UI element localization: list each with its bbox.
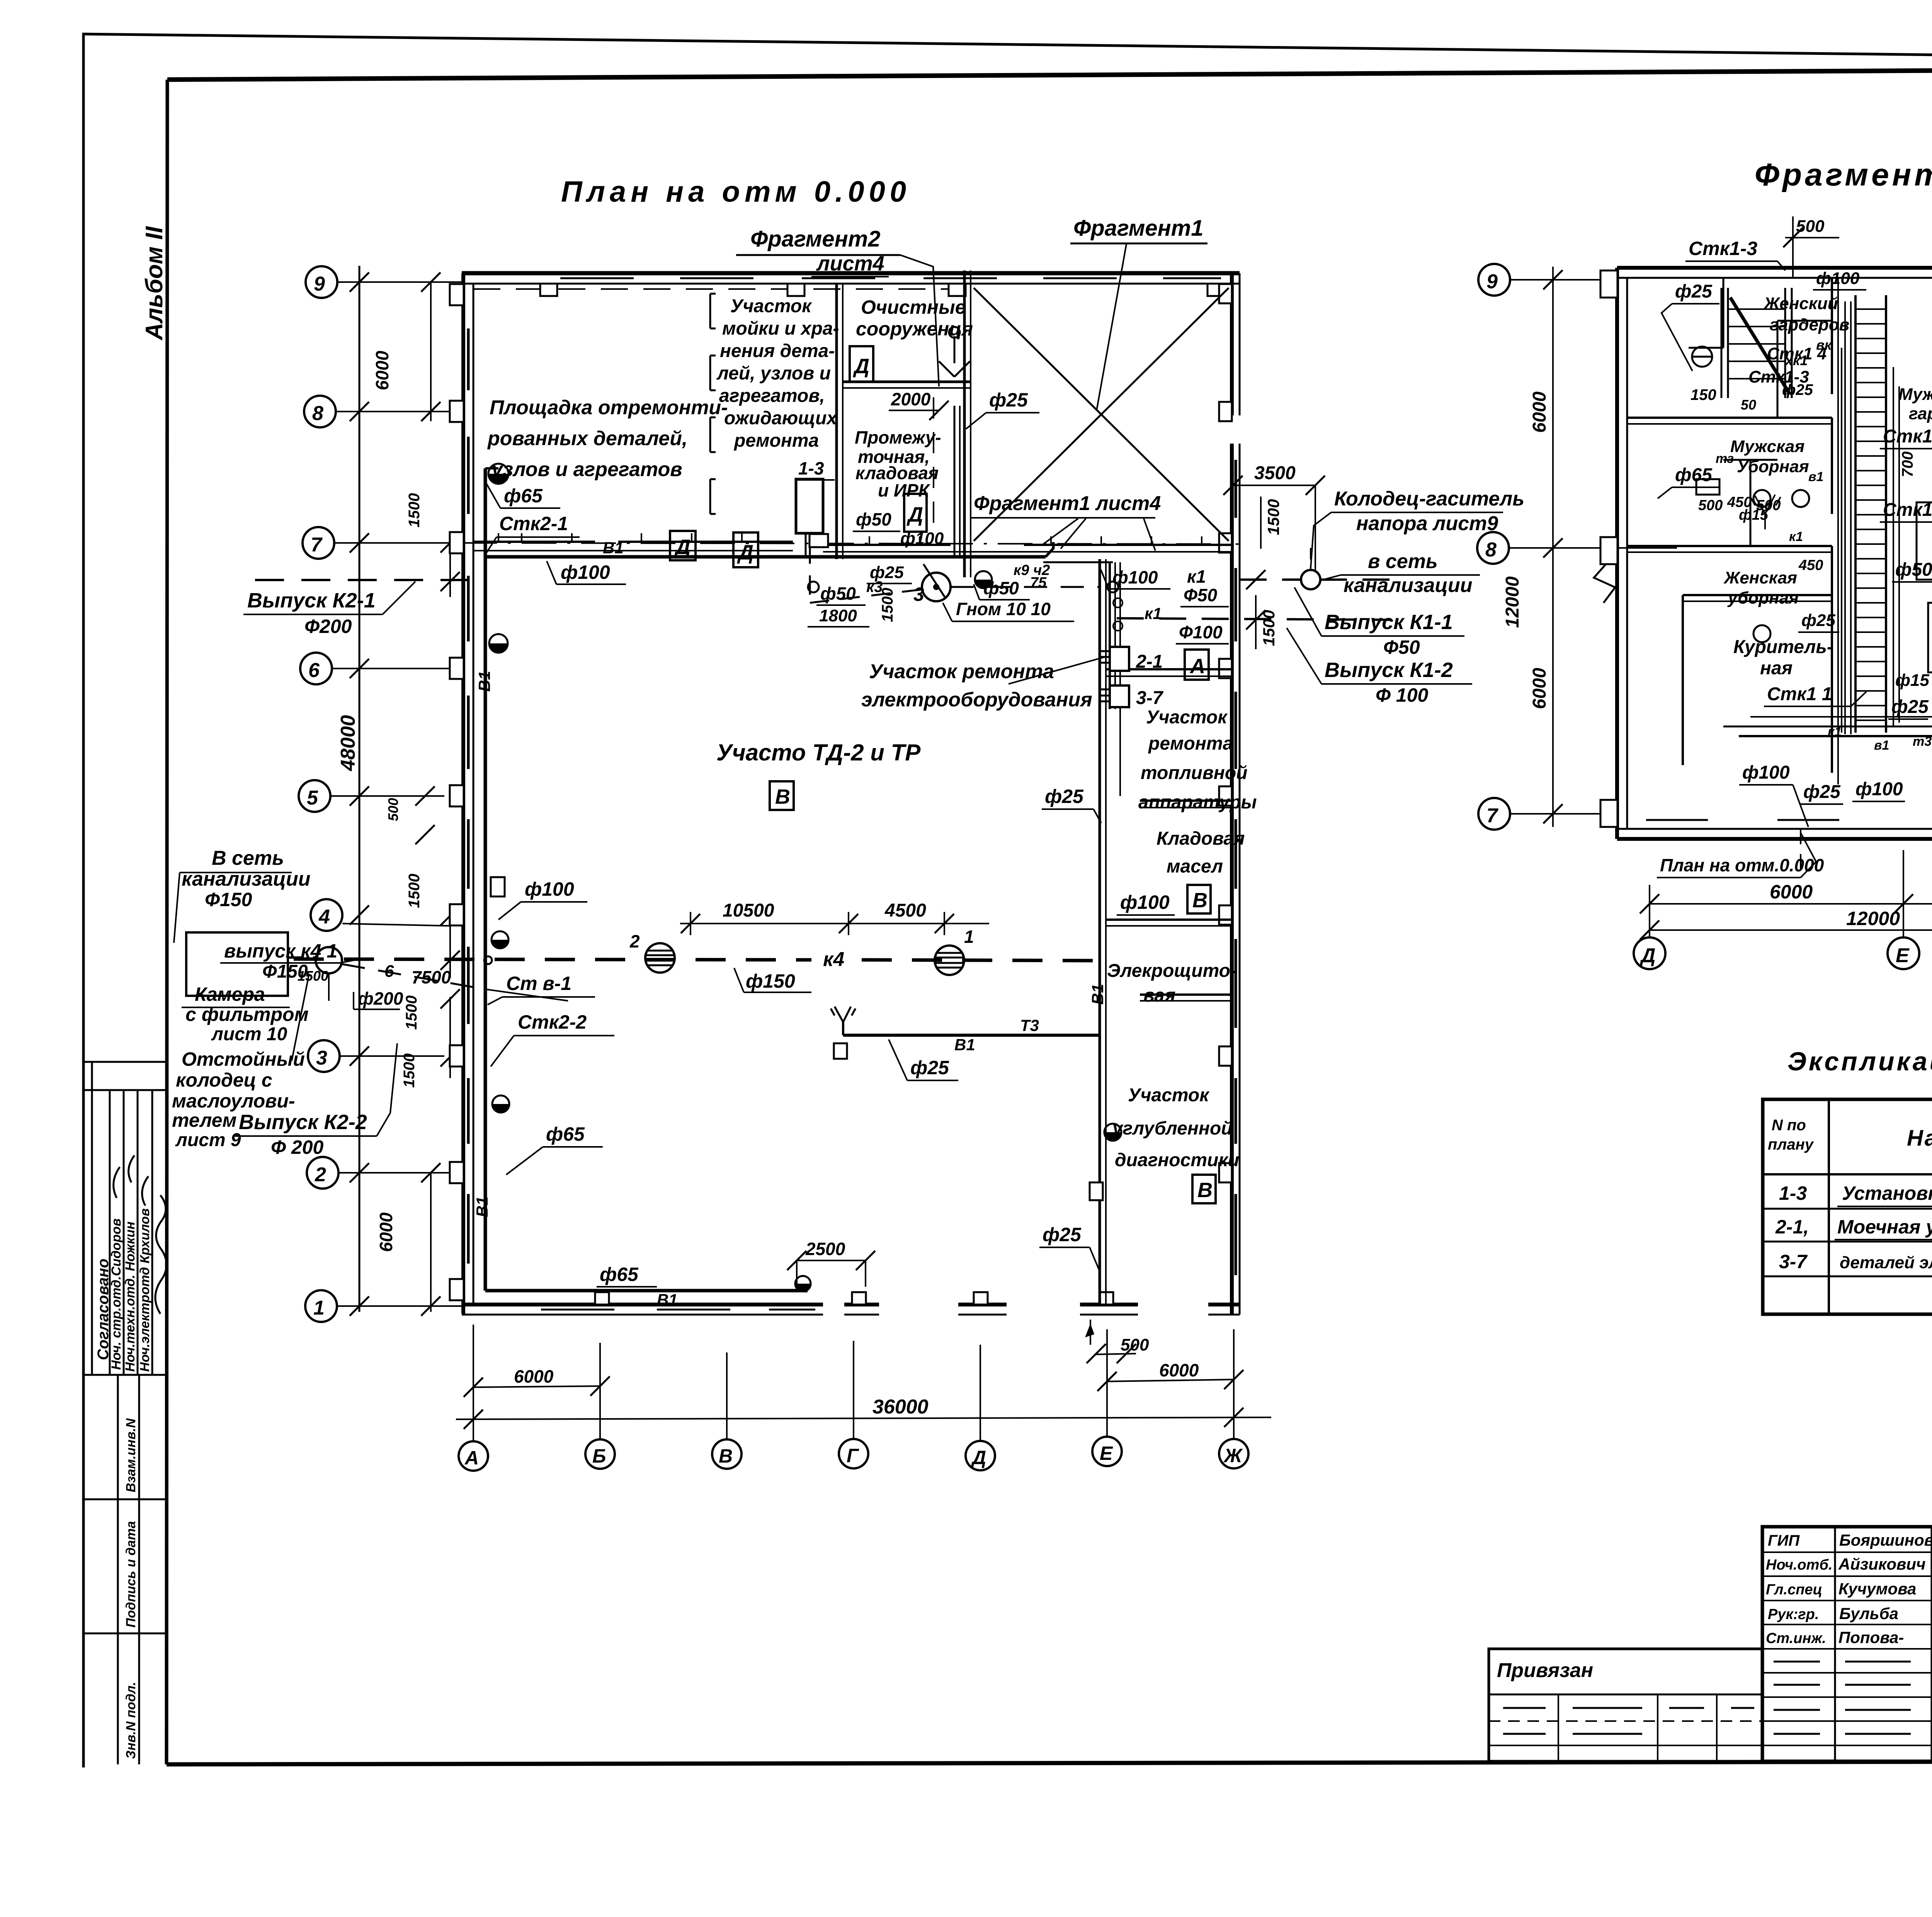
svg-text:В1: В1 (954, 1036, 975, 1054)
svg-text:В: В (775, 785, 790, 808)
svg-text:7500: 7500 (412, 967, 451, 987)
svg-text:к1: к1 (1828, 725, 1842, 739)
svg-text:вк: вк (1816, 337, 1832, 353)
axis circle 7f (1478, 798, 1510, 830)
svg-text:Ф200: Ф200 (304, 616, 352, 637)
svg-text:Женский: Женский (1763, 294, 1838, 313)
valve near pump (975, 571, 992, 588)
svg-text:уборная: уборная (1727, 589, 1799, 607)
svg-text:Д: Д (674, 536, 690, 559)
small circles row (808, 582, 819, 592)
LEFT-SIDEBAR (83, 226, 168, 1764)
svg-text:Выпуск К2-2: Выпуск К2-2 (239, 1111, 367, 1134)
svg-text:В: В (1192, 889, 1207, 912)
svg-text:Экспликация технологического: Экспликация технологического оборудовани… (1787, 1047, 1932, 1076)
svg-text:Д: Д (737, 541, 753, 564)
FRAGMENT-1 LABELS (1657, 216, 1932, 878)
svg-text:рованных деталей,: рованных деталей, (487, 427, 687, 450)
axis circle 5 (299, 780, 330, 812)
MAIN-PLAN TEXT LABELS (172, 216, 1524, 1309)
svg-text:Установка для мойки агрегатов: Установка для мойки агрегатов (1842, 1182, 1932, 1204)
svg-text:150: 150 (1690, 386, 1716, 403)
svg-text:Д: Д (906, 503, 923, 526)
svg-text:Фрагмент2: Фрагмент2 (750, 226, 881, 252)
svg-text:ная: ная (1760, 658, 1793, 679)
svg-text:ф15: ф15 (1895, 671, 1929, 690)
svg-text:Уборная: Уборная (1737, 457, 1809, 476)
svg-text:углубленной: углубленной (1112, 1118, 1232, 1139)
svg-text:Ст в-1: Ст в-1 (506, 973, 571, 994)
svg-text:1: 1 (313, 1297, 325, 1319)
svg-text:Ноч. стр.отд.Сидоров: Ноч. стр.отд.Сидоров (109, 1218, 124, 1370)
svg-text:700: 700 (1899, 451, 1916, 477)
svg-text:в сеть: в сеть (1368, 550, 1438, 573)
svg-text:Ф100: Ф100 (1179, 622, 1223, 642)
rotated dim texts (337, 350, 423, 1252)
axis stubs (473, 1325, 474, 1441)
main stamp grid (1762, 1527, 1932, 1761)
partition x1845 dashed-bracket (710, 294, 716, 514)
kamera box (186, 932, 288, 996)
svg-text:ф25: ф25 (1675, 281, 1713, 302)
svg-text:1-3: 1-3 (1779, 1182, 1807, 1204)
svg-text:Мужская: Мужская (1730, 437, 1804, 456)
bottom wall segments (462, 1303, 1240, 1306)
svg-text:А: А (1189, 655, 1205, 678)
svg-text:Выпуск К1-1: Выпуск К1-1 (1325, 611, 1453, 634)
svg-text:напора лист9: напора лист9 (1356, 512, 1498, 535)
svg-text:Е: Е (1100, 1442, 1113, 1464)
svg-text:ф50: ф50 (983, 578, 1019, 598)
svg-text:Элекрощито-: Элекрощито- (1107, 961, 1236, 981)
svg-text:Бульба: Бульба (1839, 1604, 1898, 1623)
svg-text:Д: Д (1639, 944, 1656, 967)
согласовано columns (91, 1062, 93, 1375)
svg-text:ф50: ф50 (1895, 560, 1932, 580)
svg-text:Стк1 1: Стк1 1 (1767, 684, 1832, 704)
boxed D 2 (733, 532, 758, 567)
MAIN-PLAN WALLS (450, 270, 1240, 1315)
svg-text:2: 2 (629, 931, 640, 951)
pipe bundle down right (1109, 562, 1111, 709)
MAIN-PLAN AXES (299, 175, 1238, 1322)
K3 dashed (809, 544, 811, 603)
top wall column marks (540, 284, 1225, 296)
left rooms corridor wall (1831, 278, 1833, 394)
svg-text:1500: 1500 (1260, 610, 1278, 646)
svg-text:ф65: ф65 (600, 1264, 639, 1285)
inner frame (167, 68, 1932, 80)
svg-text:ф50: ф50 (820, 583, 856, 604)
axis circle 3 (308, 1040, 340, 1072)
svg-text:N по: N по (1772, 1117, 1806, 1134)
svg-text:Привязан: Привязан (1497, 1659, 1593, 1682)
boxed D 1 (670, 531, 696, 560)
svg-text:Ф 200: Ф 200 (271, 1136, 324, 1158)
svg-text:канализации: канализации (182, 868, 311, 890)
svg-text:Гном 10 10: Гном 10 10 (956, 599, 1051, 619)
svg-text:Ст.инж.: Ст.инж. (1766, 1630, 1826, 1647)
6000 A-B dim (473, 1386, 600, 1387)
svg-text:12000: 12000 (1502, 576, 1523, 628)
pipe V1 vertical along left wall (484, 468, 487, 1291)
svg-text:6: 6 (308, 659, 320, 682)
svg-text:ф100: ф100 (900, 529, 944, 548)
svg-text:9: 9 (1486, 270, 1498, 293)
svg-text:36000: 36000 (872, 1396, 929, 1418)
svg-text:лист4: лист4 (816, 252, 884, 275)
corridor hatched duct strip (1855, 295, 1886, 733)
svg-text:6000: 6000 (376, 1212, 396, 1252)
fragment dim line (1552, 267, 1554, 827)
K2-2 dashed diagonal (342, 964, 485, 989)
svg-text:8: 8 (312, 402, 323, 425)
partitions left rooms (1627, 417, 1832, 419)
axis circle 9f (1478, 264, 1510, 296)
svg-text:ф100: ф100 (1742, 762, 1790, 783)
svg-text:ф25: ф25 (1891, 697, 1929, 717)
top wall window ticks (560, 277, 1221, 279)
boxed V masel (1187, 885, 1211, 913)
left wall window strips (467, 328, 470, 1264)
MAIN-PLAN PIPES (186, 327, 1391, 1305)
axis circle 8 (304, 396, 336, 427)
svg-text:ремонта: ремонта (1148, 733, 1233, 754)
svg-text:6000: 6000 (1159, 1360, 1199, 1380)
svg-text:ф65: ф65 (546, 1123, 585, 1145)
svg-text:Колодец-гаситель: Колодец-гаситель (1334, 488, 1524, 510)
svg-text:лист 9: лист 9 (175, 1130, 241, 1150)
svg-text:10500: 10500 (723, 900, 774, 921)
fragment axis D (1634, 937, 1665, 969)
fragment left wall (1615, 268, 1619, 839)
small symbols near axis4 (491, 877, 505, 896)
pump GNOM (922, 573, 951, 601)
right wall upper (X room) (1230, 273, 1234, 415)
svg-text:Мужской: Мужской (1898, 385, 1932, 404)
svg-text:1500: 1500 (401, 1053, 418, 1088)
svg-text:Фрагмент1: Фрагмент1 (1073, 216, 1204, 241)
fragment bottom dims (1650, 903, 1932, 905)
svg-text:маслоулови-: маслоулови- (172, 1090, 295, 1112)
dim ticks (350, 272, 460, 1316)
svg-text:масел: масел (1167, 856, 1223, 877)
svg-text:в1: в1 (1808, 469, 1823, 484)
equipment 3-7 (1110, 685, 1129, 707)
svg-text:В: В (1197, 1179, 1213, 1202)
valve near axis3 (492, 1095, 509, 1112)
svg-text:к1: к1 (1789, 529, 1803, 544)
svg-text:А: А (464, 1447, 479, 1469)
svg-text:В сеть: В сеть (212, 847, 284, 869)
svg-text:Бояршинов: Бояршинов (1839, 1531, 1932, 1549)
svg-text:вая: вая (1143, 985, 1175, 1006)
svg-text:к1: к1 (1145, 604, 1162, 623)
sidebar table top (83, 1061, 167, 1063)
svg-text:В1: В1 (657, 1291, 678, 1309)
sewer K1-1 dashed right (1240, 578, 1301, 581)
svg-text:Кладовая: Кладовая (1156, 828, 1245, 849)
svg-text:1500: 1500 (1264, 499, 1282, 535)
svg-text:В1: В1 (473, 1196, 491, 1217)
svg-text:3-7: 3-7 (1136, 688, 1164, 708)
stamp texts (1766, 1531, 1932, 1763)
svg-text:Г: Г (847, 1445, 859, 1466)
svg-text:Ноч.электротд Крхилов: Ноч.электротд Крхилов (138, 1208, 152, 1372)
svg-text:1-3: 1-3 (798, 458, 824, 478)
svg-text:Ф50: Ф50 (1184, 585, 1217, 605)
svg-text:Б: Б (592, 1445, 606, 1467)
svg-text:6000: 6000 (1770, 881, 1813, 903)
svg-text:4500: 4500 (884, 900, 926, 921)
phi25 vertical right (1099, 1035, 1101, 1305)
svg-text:Ноч.техн.отд. Ножкин: Ноч.техн.отд. Ножкин (123, 1221, 138, 1372)
svg-text:Камера: Камера (195, 983, 265, 1005)
svg-text:ф25: ф25 (1801, 611, 1835, 630)
svg-text:телем: телем (172, 1109, 236, 1131)
svg-text:6000: 6000 (514, 1366, 554, 1386)
axis circle 1 (305, 1290, 337, 1322)
svg-text:Т3: Т3 (1020, 1016, 1039, 1034)
break squiggle on left wall (1594, 560, 1615, 603)
svg-text:Альбом II: Альбом II (141, 226, 168, 341)
valve on V1 mid (489, 634, 508, 653)
axis circle Zh (1219, 1439, 1248, 1468)
axis circle V (712, 1439, 742, 1469)
svg-text:к4: к4 (823, 948, 844, 971)
boxed A (1185, 650, 1209, 680)
svg-text:В1: В1 (475, 671, 493, 692)
sewer K4 dashed (294, 959, 811, 960)
left wall (461, 273, 465, 1314)
outer border left (82, 33, 85, 1767)
fragment axis E (1888, 937, 1919, 969)
equipment 2-1 (1110, 647, 1129, 671)
svg-text:450: 450 (1798, 557, 1823, 573)
svg-text:500: 500 (385, 798, 401, 821)
outer border top (82, 34, 1932, 62)
svg-text:плану: плану (1768, 1136, 1814, 1153)
svg-text:7: 7 (1486, 805, 1498, 827)
svg-text:Попова-: Попова- (1838, 1628, 1904, 1647)
svg-text:ф25: ф25 (910, 1057, 949, 1078)
svg-text:Гл.спец: Гл.спец (1766, 1582, 1822, 1598)
dim 10500/4500 (680, 923, 989, 924)
wall x2060 (835, 284, 838, 559)
svg-text:9: 9 (314, 273, 325, 295)
svg-text:План на отм.0.000: План на отм.0.000 (1660, 855, 1824, 875)
svg-text:ф65: ф65 (1675, 465, 1713, 485)
svg-text:тз: тз (1716, 451, 1734, 466)
boxed D 3 (904, 494, 927, 532)
boxed D ochistnye (850, 346, 873, 382)
svg-text:Промежу-: Промежу- (855, 427, 941, 447)
svg-text:500: 500 (1698, 497, 1723, 514)
svg-text:т3: т3 (1913, 734, 1932, 749)
svg-text:1500: 1500 (298, 968, 328, 984)
svg-text:к3: к3 (866, 578, 883, 595)
right rooms partitions (1106, 668, 1232, 670)
well 2 (645, 943, 675, 973)
svg-text:8: 8 (1485, 539, 1497, 561)
axis circle 9 (306, 266, 337, 298)
axis circle E (1092, 1437, 1122, 1466)
sewer K2-1 dashed (255, 579, 485, 581)
svg-text:ф65: ф65 (504, 485, 543, 507)
lower cells (117, 1375, 119, 1764)
36000 dim line (456, 1417, 1271, 1419)
svg-text:Ф150: Ф150 (205, 889, 252, 910)
svg-text:1500: 1500 (406, 493, 423, 527)
svg-text:Наименование: Наименование (1907, 1126, 1932, 1151)
otstoynik well (316, 947, 342, 973)
svg-text:Ф 100: Ф 100 (1376, 684, 1429, 706)
svg-text:ф100: ф100 (1120, 891, 1170, 913)
axis circle A (459, 1441, 488, 1471)
vertical dimension line (359, 266, 361, 1312)
T3 pipe (842, 1022, 844, 1035)
svg-text:Фрагмент 1: Фрагмент 1 (1755, 157, 1932, 192)
fragment top wall (1617, 266, 1932, 270)
svg-text:гардеров: гардеров (1770, 315, 1849, 334)
pipe V1 bottom (485, 1289, 808, 1293)
svg-text:ф100: ф100 (561, 561, 610, 583)
svg-text:План на отм 0.000: План на отм 0.000 (561, 175, 911, 208)
axis circle 2 (307, 1157, 338, 1189)
svg-text:2000: 2000 (891, 389, 931, 409)
svg-text:аппаратуры: аппаратуры (1138, 792, 1257, 813)
sewer K1-2 dashed (1117, 618, 1391, 620)
svg-text:12000: 12000 (1846, 908, 1900, 929)
svg-text:топливной: топливной (1141, 763, 1248, 783)
svg-text:электрооборудования: электрооборудования (861, 689, 1092, 711)
svg-text:ремонта: ремонта (733, 430, 819, 451)
valve on V1 top (485, 467, 498, 469)
svg-text:2-1,: 2-1, (1775, 1216, 1809, 1238)
svg-text:Кучумова: Кучумова (1838, 1580, 1916, 1598)
svg-text:Моечная установка с электропод: Моечная установка с электроподогревом дл… (1837, 1216, 1932, 1238)
svg-text:Выпуск К2-1: Выпуск К2-1 (247, 589, 376, 612)
fragment bottom wall (1617, 828, 1932, 830)
axis circle G (839, 1439, 868, 1468)
svg-text:Фрагмент1 лист4: Фрагмент1 лист4 (974, 492, 1161, 515)
pipe V1 horizontal y1441 (485, 555, 1046, 559)
svg-text:узлов и агрегатов: узлов и агрегатов (490, 458, 682, 481)
svg-text:В: В (719, 1445, 733, 1467)
svg-text:Е: Е (1896, 944, 1910, 967)
svg-text:ф25: ф25 (1803, 782, 1841, 802)
small sanitary partitions (1723, 278, 1725, 348)
svg-text:ф200: ф200 (358, 988, 403, 1009)
svg-text:7: 7 (311, 534, 323, 556)
svg-text:Ноч.отб.: Ноч.отб. (1766, 1557, 1833, 1573)
svg-text:2500: 2500 (805, 1239, 845, 1259)
svg-text:6: 6 (384, 962, 394, 981)
svg-text:ф25: ф25 (1782, 381, 1813, 398)
svg-text:ф100: ф100 (1816, 269, 1860, 288)
kolodets-gasitel (1301, 570, 1320, 589)
svg-text:канализации: канализации (1344, 574, 1473, 597)
svg-text:500: 500 (1121, 1335, 1149, 1354)
axis circle 8f (1477, 532, 1509, 564)
svg-text:к1: к1 (1187, 566, 1206, 587)
2000 dim in kladovaya (889, 410, 939, 411)
svg-text:2: 2 (315, 1163, 326, 1186)
svg-text:75: 75 (1030, 575, 1047, 591)
svg-text:мойки и хра-: мойки и хра- (722, 318, 839, 339)
svg-text:Участок: Участок (1146, 707, 1228, 728)
svg-text:Взам.инв.N: Взам.инв.N (124, 1418, 138, 1492)
svg-text:Д: Д (971, 1447, 986, 1468)
FRAGMENT-1 (1477, 157, 1932, 969)
TITLE BLOCK (1489, 1527, 1932, 1801)
axis circle D (966, 1441, 995, 1470)
svg-text:В1: В1 (1088, 984, 1107, 1005)
pipe bundle fragment (1844, 301, 1846, 734)
small room mid (1917, 502, 1932, 580)
svg-text:Участок: Участок (1128, 1085, 1210, 1106)
svg-text:хк1: хк1 (1784, 352, 1808, 368)
dashed axis in fragment (1800, 829, 1801, 873)
svg-text:Рук:гр.: Рук:гр. (1768, 1606, 1819, 1623)
well 1 (935, 946, 964, 975)
svg-text:в1: в1 (1874, 738, 1889, 753)
svg-text:1800: 1800 (819, 606, 857, 625)
svg-text:ф25: ф25 (1043, 1224, 1082, 1245)
svg-text:6000: 6000 (1529, 391, 1550, 433)
svg-text:1500: 1500 (406, 874, 423, 908)
svg-text:Женская: Женская (1723, 568, 1797, 587)
axis circle 4 (311, 899, 342, 931)
svg-text:ф100: ф100 (1855, 779, 1903, 799)
svg-text:Выпуск К1-2: Выпуск К1-2 (1325, 658, 1453, 682)
svg-text:диагностики: диагностики (1115, 1150, 1239, 1170)
svg-text:колодец с: колодец с (176, 1069, 272, 1091)
svg-text:Стк1-5: Стк1-5 (1883, 426, 1932, 447)
right rooms column: inner long wall (1099, 559, 1101, 1305)
svg-text:агрегатов,: агрегатов, (719, 386, 825, 406)
svg-text:ГИП: ГИП (1768, 1532, 1800, 1549)
svg-text:В1: В1 (603, 539, 624, 557)
svg-text:нения дета-: нения дета- (720, 341, 835, 361)
svg-text:гардеров: гардеров (1909, 404, 1932, 423)
valve near axis4 (492, 931, 509, 948)
svg-text:Д: Д (853, 355, 869, 378)
axis circle 6 (300, 653, 332, 684)
kladovaya room walls (843, 381, 971, 383)
svg-text:лей, узлов и: лей, узлов и (716, 363, 831, 384)
svg-text:Ж: Ж (1223, 1445, 1243, 1466)
svg-text:Стк1-3: Стк1-3 (1689, 238, 1757, 259)
svg-text:Айзикович: Айзикович (1838, 1555, 1926, 1573)
svg-text:Отстойный: Отстойный (182, 1048, 305, 1070)
svg-text:Участо ТД-2 и ТР: Участо ТД-2 и ТР (716, 740, 921, 765)
svg-text:ф25: ф25 (989, 389, 1028, 411)
K1 dashed from pump area (951, 586, 1100, 588)
svg-text:6000: 6000 (1529, 668, 1550, 709)
right wall lower (1230, 444, 1234, 1315)
svg-text:50: 50 (1741, 397, 1756, 413)
MAIN-PLAN BOTTOM AXES (456, 1320, 1271, 1471)
svg-text:деталей электрооборудования и: деталей электрооборудования и приборов п… (1840, 1253, 1932, 1272)
svg-text:2-1: 2-1 (1136, 651, 1163, 672)
svg-text:Стк2-2: Стк2-2 (518, 1011, 587, 1033)
equipment 1-3 (796, 479, 823, 533)
svg-text:ф15: ф15 (1739, 507, 1769, 523)
svg-text:Куритель-: Куритель- (1733, 637, 1833, 657)
axis circle B (585, 1439, 615, 1469)
svg-text:сооруженця: сооруженця (856, 318, 973, 340)
